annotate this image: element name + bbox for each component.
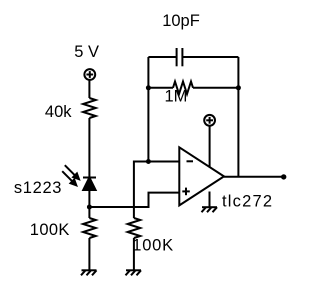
svg-text:100K: 100K [132,236,174,254]
svg-text:100K: 100K [30,221,70,239]
svg-text:5 V: 5 V [74,43,99,61]
svg-text:10pF: 10pF [162,12,200,30]
svg-text:tlc272: tlc272 [222,192,273,210]
svg-text:s1223: s1223 [14,179,62,197]
svg-text:40k: 40k [45,103,72,121]
svg-text:1M: 1M [165,88,188,106]
